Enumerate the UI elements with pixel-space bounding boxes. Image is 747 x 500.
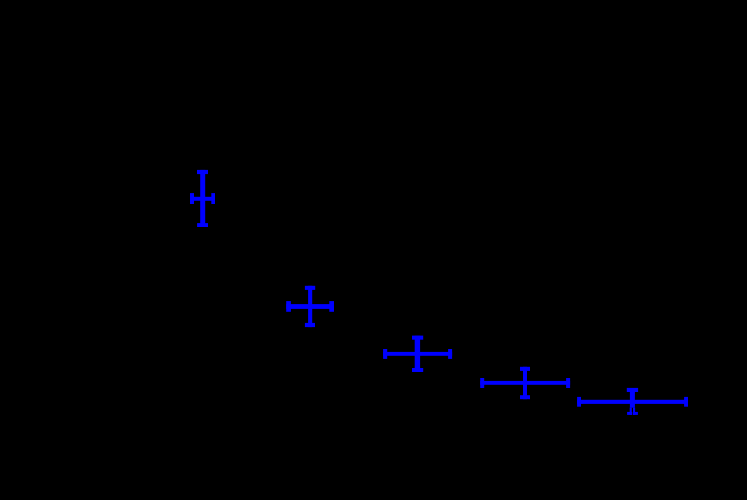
data point P1 (x=202.6, y=198.6) xy error bars bbox=[190, 170, 215, 227]
data point P3 (x=417.5, y=353.9) xy error bars bbox=[383, 336, 452, 372]
data point P5 (x=632.5, y=401.9) xy error bars (doubled lower bar with slit) bbox=[577, 388, 688, 415]
data point P2 (x=310.1, y=306.5) xy error bars bbox=[286, 286, 334, 327]
data point P4 (x=525.1, y=382.9) xy error bars bbox=[480, 367, 570, 399]
